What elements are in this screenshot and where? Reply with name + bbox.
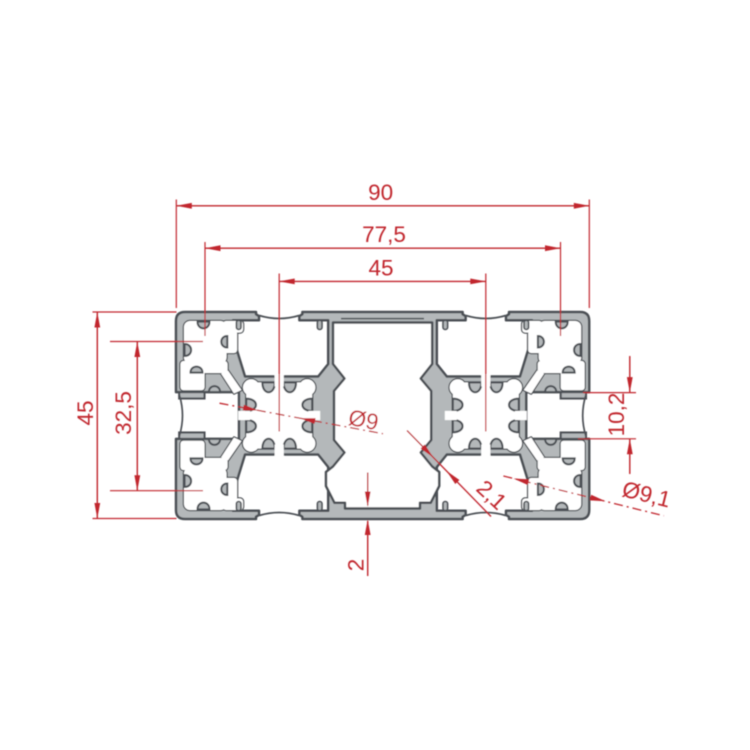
svg-text:45: 45 — [73, 400, 98, 425]
screw-boss cavity column 2 — [450, 379, 466, 395]
corner cavity top-right — [539, 321, 582, 364]
svg-text:10,2: 10,2 — [604, 393, 629, 437]
dimension 2 wall thickness — [367, 473, 369, 506]
dimension 32,5 — [136, 342, 138, 491]
dimension O9 center bore — [220, 403, 384, 434]
svg-text:90: 90 — [368, 180, 393, 205]
svg-text:2: 2 — [344, 559, 369, 572]
dimension 10,2 slot opening — [629, 356, 631, 393]
svg-text:32,5: 32,5 — [111, 391, 136, 435]
corner cavity bottom-right — [539, 468, 582, 511]
svg-text:45: 45 — [368, 256, 393, 281]
chamber ceiling recess line — [341, 318, 424, 320]
dimension 45 overall height — [96, 312, 98, 519]
svg-text:77,5: 77,5 — [362, 222, 406, 247]
side slot lips right — [561, 392, 586, 398]
dimension 90 overall width — [176, 205, 589, 207]
corner cavity bottom-left — [184, 468, 227, 511]
profile body — [176, 312, 589, 519]
side slot lips left — [179, 392, 204, 398]
screw-boss cavity column 1 — [243, 379, 259, 395]
central chamber cavity — [326, 323, 439, 509]
corner cavity top-left — [184, 321, 227, 364]
slot mouth lip lines — [259, 316, 299, 319]
screw channel necks — [275, 375, 284, 387]
dimension O9,1 corner bore — [503, 476, 663, 516]
T-slot wing teeth — [236, 320, 241, 329]
dimension 2,1 web thickness — [407, 431, 491, 517]
dimension 45 bore spacing — [279, 280, 486, 282]
dimension 77,5 — [205, 247, 561, 249]
